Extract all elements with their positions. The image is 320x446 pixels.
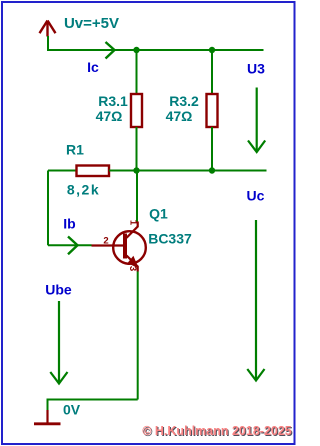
wire bottom xyxy=(48,400,138,411)
wire R3.2 bottom xyxy=(211,127,213,171)
arrow Ube xyxy=(50,301,67,384)
wire top rail xyxy=(48,36,264,50)
junction top R3.1 xyxy=(133,47,139,53)
wire collector rail xyxy=(109,170,267,172)
svg-text:47Ω: 47Ω xyxy=(96,108,123,124)
ground xyxy=(34,410,61,424)
wire Ib base xyxy=(48,244,92,246)
svg-text:© H.Kuhlmann 2018-2025: © H.Kuhlmann 2018-2025 xyxy=(142,424,292,438)
wire R3.1 top xyxy=(136,50,138,94)
svg-text:47Ω: 47Ω xyxy=(166,108,193,124)
resistor R1 xyxy=(77,166,110,177)
arrow Uc xyxy=(247,220,264,381)
supply symbol Uv arrow xyxy=(40,21,56,37)
wire R3.2 top xyxy=(211,50,213,94)
wire left rail down xyxy=(47,171,49,246)
transistor Q1 xyxy=(92,222,146,272)
svg-text:Uv=+5V: Uv=+5V xyxy=(64,15,119,32)
svg-text:R3.2: R3.2 xyxy=(169,93,199,109)
arrow Ic on rail xyxy=(106,42,115,59)
svg-text:Q1: Q1 xyxy=(149,206,168,222)
svg-text:Ib: Ib xyxy=(63,216,75,232)
svg-text:U3: U3 xyxy=(247,61,265,77)
svg-text:1: 1 xyxy=(128,220,139,226)
junction top R3.2 xyxy=(209,47,215,53)
svg-text:Uc: Uc xyxy=(247,188,265,204)
arrow Ib xyxy=(68,237,78,255)
svg-text:Ube: Ube xyxy=(45,282,72,298)
svg-text:R1: R1 xyxy=(66,142,84,158)
svg-text:8,2k: 8,2k xyxy=(67,182,100,198)
svg-text:Ic: Ic xyxy=(87,59,99,75)
svg-text:R3.1: R3.1 xyxy=(98,93,128,109)
svg-text:2: 2 xyxy=(103,236,108,247)
svg-text:BC337: BC337 xyxy=(148,231,192,247)
resistor R3.1 xyxy=(131,94,142,127)
junction bottom R3.2 xyxy=(209,167,215,173)
wire collector down xyxy=(136,171,138,222)
junction bottom R3.1 xyxy=(133,167,139,173)
arrow U3 xyxy=(248,88,265,153)
resistor R3.2 xyxy=(207,94,218,127)
wire emitter down xyxy=(137,272,139,400)
svg-text:3: 3 xyxy=(127,266,138,271)
wire R3.1 bottom xyxy=(136,127,138,171)
svg-text:0V: 0V xyxy=(63,402,81,418)
wire left of R1 xyxy=(48,170,77,172)
